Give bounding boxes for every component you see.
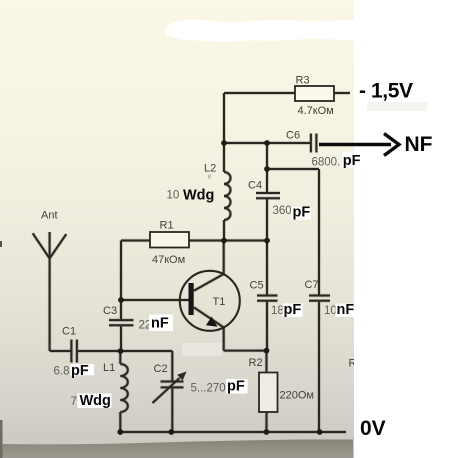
svg-text:47кОм: 47кОм bbox=[152, 254, 185, 266]
svg-text:R1: R1 bbox=[160, 220, 174, 232]
svg-text:4.7кОм: 4.7кОм bbox=[298, 105, 334, 117]
svg-text:7: 7 bbox=[71, 396, 77, 408]
svg-text:pF: pF bbox=[343, 153, 361, 169]
svg-text:10: 10 bbox=[324, 305, 337, 317]
svg-text:nF: nF bbox=[151, 316, 169, 332]
svg-text:R2: R2 bbox=[249, 357, 263, 369]
svg-text:C1: C1 bbox=[62, 326, 76, 338]
svg-text:L1: L1 bbox=[103, 362, 115, 374]
svg-text:C3: C3 bbox=[103, 305, 117, 317]
svg-text:C6: C6 bbox=[286, 130, 300, 142]
svg-text:Wdg: Wdg bbox=[183, 188, 214, 204]
svg-text:pF: pF bbox=[71, 363, 89, 379]
svg-text:pF: pF bbox=[227, 379, 245, 395]
svg-text:pF: pF bbox=[293, 205, 311, 221]
svg-text:Wdg: Wdg bbox=[80, 393, 111, 409]
svg-text:C4: C4 bbox=[248, 180, 262, 192]
svg-text:pF: pF bbox=[284, 302, 302, 318]
svg-text:C5: C5 bbox=[250, 280, 264, 292]
svg-text:360: 360 bbox=[273, 205, 292, 217]
svg-text:6800.: 6800. bbox=[312, 157, 341, 169]
svg-text:18: 18 bbox=[271, 305, 284, 317]
svg-text:C7: C7 bbox=[305, 279, 319, 291]
svg-text:R3: R3 bbox=[296, 75, 310, 87]
svg-text:C2: C2 bbox=[154, 363, 168, 375]
svg-text:NF: NF bbox=[405, 133, 433, 156]
svg-text:T1: T1 bbox=[213, 296, 226, 308]
svg-text:0V: 0V bbox=[360, 417, 386, 440]
svg-text:220Ом: 220Ом bbox=[280, 390, 314, 402]
svg-text:Ant: Ant bbox=[41, 210, 58, 222]
svg-text:6.8: 6.8 bbox=[54, 366, 70, 378]
svg-text:- 1,5V: - 1,5V bbox=[359, 80, 413, 103]
svg-text:5...270: 5...270 bbox=[191, 383, 226, 395]
svg-text:nF: nF bbox=[337, 302, 355, 318]
svg-text:10: 10 bbox=[167, 190, 180, 202]
